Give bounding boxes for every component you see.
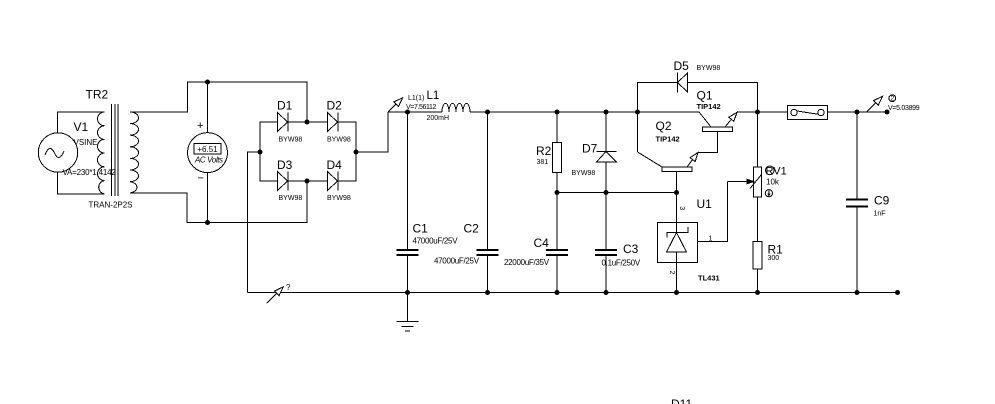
svg-text:C9: C9: [874, 194, 890, 208]
wire bridge positive output to L1: [356, 112, 388, 152]
diode D3: [278, 172, 289, 191]
resistor R2: [553, 112, 562, 193]
svg-text:2: 2: [890, 96, 894, 103]
svg-text:BYW98: BYW98: [327, 195, 351, 202]
svg-text:V=7.56112: V=7.56112: [406, 104, 436, 111]
shunt regulator U1 TL431: [658, 193, 698, 293]
svg-text:D3: D3: [277, 158, 293, 172]
svg-text:BYW98: BYW98: [279, 137, 303, 144]
wire V1 top to TR2 primary top: [58, 112, 105, 133]
wire RV1 wiper to U1 ref pin 1: [681, 182, 728, 242]
wire TR2 secondary bottom to bridge AC bottom: [130, 181, 307, 223]
wire main positive rail to Q1/Q2 collector: [470, 112, 711, 127]
svg-text:D5: D5: [674, 59, 690, 73]
svg-text:VA=230*1.4142: VA=230*1.4142: [63, 168, 117, 177]
capacitor C3: [595, 193, 617, 293]
svg-text:C3: C3: [623, 242, 639, 256]
probe output voltage arrow: [866, 95, 895, 112]
svg-text:AC Volts: AC Volts: [194, 156, 223, 165]
capacitor C2: [477, 112, 499, 293]
svg-text:VSINE: VSINE: [74, 138, 98, 147]
svg-text:D4: D4: [327, 158, 343, 172]
svg-text:TIP142: TIP142: [656, 135, 680, 144]
potentiometer RV1: [728, 112, 762, 242]
svg-text:TIP142: TIP142: [697, 102, 721, 111]
svg-text:47000uF/25V: 47000uF/25V: [434, 257, 480, 266]
voltmeter AC Volts: [188, 133, 228, 173]
svg-text:+6.51: +6.51: [197, 145, 218, 154]
wire TR2 secondary top to bridge AC top: [130, 82, 307, 122]
svg-text:300: 300: [768, 255, 780, 262]
wire bridge negative node to bottom rail: [248, 152, 261, 293]
wire main positive rail: [388, 111, 442, 113]
svg-text:47000uF/25V: 47000uF/25V: [413, 237, 459, 246]
svg-text:200mH: 200mH: [427, 115, 450, 122]
svg-text:−: −: [198, 173, 204, 185]
resistor R1: [753, 242, 762, 293]
svg-text:C2: C2: [464, 222, 480, 236]
svg-text:+: +: [197, 120, 203, 132]
svg-text:3: 3: [678, 206, 685, 210]
svg-text:2: 2: [668, 271, 675, 275]
ac source V1: [38, 133, 77, 172]
svg-text:C1: C1: [413, 222, 429, 236]
svg-text:D7: D7: [582, 142, 598, 156]
svg-text:L1(1): L1(1): [408, 95, 424, 102]
svg-text:10k: 10k: [766, 178, 780, 187]
svg-text:Q1: Q1: [697, 89, 713, 103]
svg-text:22000uF/35V: 22000uF/35V: [504, 258, 550, 267]
diode D4: [328, 172, 339, 191]
svg-text:D2: D2: [327, 99, 343, 113]
svg-text:TRAN-2P2S: TRAN-2P2S: [89, 201, 133, 210]
svg-text:BYW98: BYW98: [327, 137, 351, 144]
svg-text:TR2: TR2: [86, 88, 109, 102]
wire switch to output node: [828, 111, 888, 113]
transformer TR2 secondary winding: [130, 112, 139, 193]
inductor L1: [442, 103, 470, 112]
svg-text:BYW98: BYW98: [572, 170, 596, 177]
voltmeter M bottom lead wire: [207, 173, 209, 223]
svg-text:TL431: TL431: [698, 274, 720, 283]
diode D5: [638, 73, 758, 153]
transistor Q1: [698, 112, 737, 152]
svg-text:D11: D11: [671, 397, 692, 404]
svg-text:BYW98: BYW98: [697, 65, 721, 72]
label RV1: [766, 166, 787, 178]
svg-text:Q2: Q2: [656, 119, 672, 133]
svg-text:1: 1: [709, 236, 713, 243]
diode D7: [597, 112, 617, 193]
wire Q1 emitter to switch: [737, 111, 788, 113]
svg-text:BYW98: BYW98: [279, 195, 303, 202]
voltmeter M top lead wire: [207, 82, 209, 133]
transformer TR2 core: [112, 104, 119, 196]
probe L1(1) arrow: [388, 98, 403, 112]
wire bottom ground rail: [248, 292, 898, 294]
svg-text:C4: C4: [534, 236, 550, 250]
capacitor C4: [546, 193, 568, 293]
svg-text:V1: V1: [74, 120, 89, 134]
capacitor C1: [397, 112, 419, 293]
ground: [397, 293, 419, 332]
svg-text:U1: U1: [697, 197, 713, 211]
svg-text:V=5.03899: V=5.03899: [888, 105, 920, 112]
diode D2: [328, 113, 339, 132]
svg-text:L1: L1: [427, 90, 440, 102]
svg-text:D1: D1: [277, 99, 293, 113]
svg-text:R2: R2: [536, 144, 552, 158]
svg-text:0.1uF/250V: 0.1uF/250V: [602, 259, 641, 268]
wire R2/D7 bottom node line to Q2 base: [557, 192, 677, 194]
svg-text:381: 381: [537, 159, 549, 166]
svg-text:1nF: 1nF: [874, 211, 886, 218]
RV1 state circled arrow: [765, 190, 772, 197]
wire V1 bottom to TR2 primary bottom: [58, 172, 105, 194]
diode D1: [278, 113, 289, 132]
transformer TR2 primary winding: [97, 112, 104, 194]
switch SW: [788, 106, 828, 120]
wire bridge rectifier frame: [260, 122, 356, 181]
probe ? arrow bottom left: [267, 287, 284, 303]
svg-text:RV1: RV1: [766, 166, 787, 178]
capacitor C9: [846, 112, 868, 293]
transistor Q2: [638, 152, 699, 193]
svg-text:?: ?: [286, 283, 291, 292]
